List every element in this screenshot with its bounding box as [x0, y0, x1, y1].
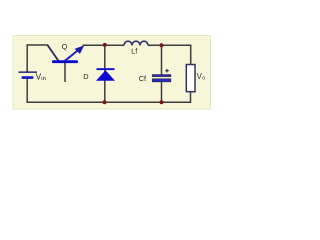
svg-text:o: o: [202, 75, 205, 81]
junction node capacitor bottom: [160, 100, 164, 104]
transistor Q1 base lead: [64, 63, 66, 82]
transistor Q1 collector lead: [47, 45, 58, 61]
svg-text:in: in: [41, 76, 46, 82]
capacitor Cf bottom plate: [152, 79, 171, 82]
svg-text:Lf: Lf: [131, 46, 138, 55]
junction node inductor output top: [160, 43, 164, 47]
diode D cathode bar: [97, 68, 115, 70]
svg-text:Q: Q: [62, 42, 68, 51]
wire capacitor branch lower: [161, 82, 163, 103]
svg-text:Cf: Cf: [139, 74, 147, 83]
diode D triangle: [96, 70, 115, 81]
resistor load Vo box: [186, 65, 195, 92]
svg-text:D: D: [83, 72, 88, 81]
transistor Q1 base bar: [52, 60, 78, 63]
wire left branch upper: [26, 44, 28, 72]
label D: [83, 72, 88, 81]
capacitor Cf top plate: [152, 75, 171, 77]
wire capacitor branch upper: [161, 45, 163, 75]
battery Vin negative plate: [22, 76, 34, 79]
wire load branch lower: [190, 92, 192, 104]
wire diode branch: [104, 45, 106, 102]
wire left branch lower: [26, 78, 28, 103]
wire bottom rail: [27, 101, 191, 103]
label Cf: [139, 74, 147, 83]
battery Vin positive plate: [19, 71, 38, 73]
transistor Q1 emitter lead with arrow: [65, 45, 85, 61]
capacitor Cf polarity plus: [165, 69, 169, 73]
wire top rail right segment: [148, 44, 191, 46]
wire top rail left segment: [27, 44, 49, 46]
label Q: [62, 42, 68, 51]
schematic background panel: [13, 36, 211, 110]
junction node diode bottom: [103, 100, 107, 104]
junction node diode top: [103, 43, 107, 47]
wire load branch upper: [190, 45, 192, 65]
label Vin: [36, 72, 46, 81]
inductor Lf winding: [124, 41, 148, 45]
wire top rail middle segment: [83, 44, 125, 46]
label Lf: [131, 46, 138, 55]
label Vo: [197, 72, 206, 81]
